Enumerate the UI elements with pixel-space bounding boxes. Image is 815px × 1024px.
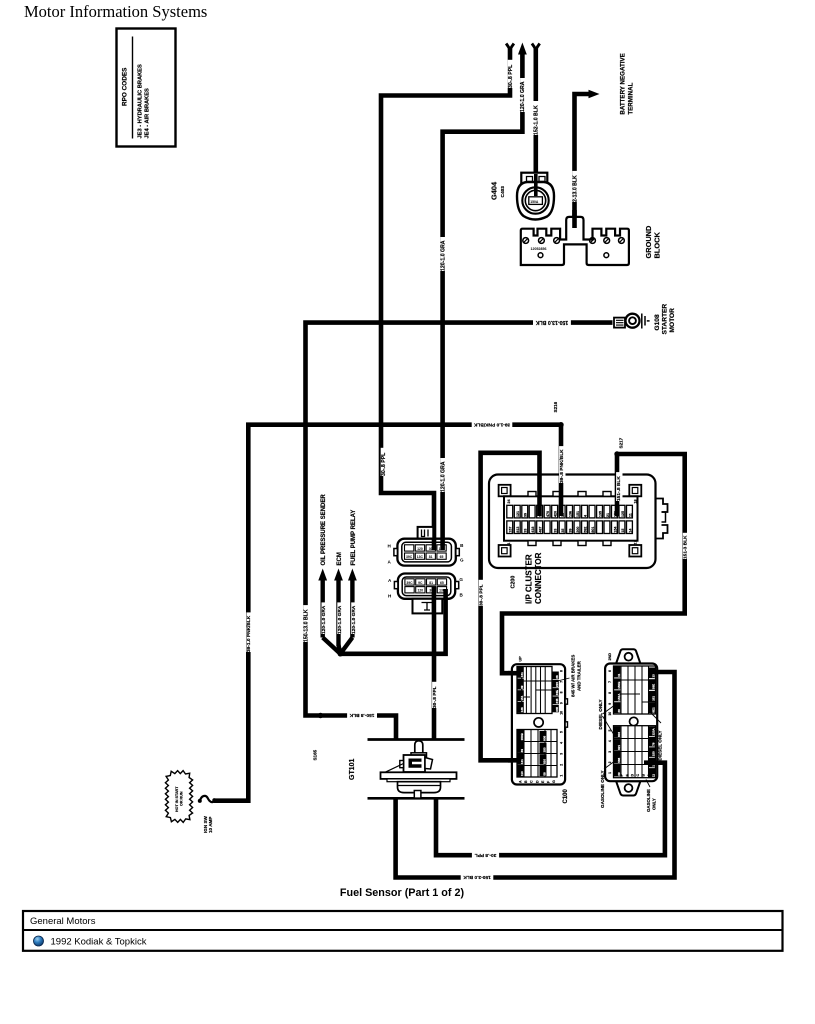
svg-text:65: 65 (440, 555, 444, 559)
label 30-.8 PPL (below ECM) (432, 682, 438, 708)
wire stub into C200 pin 151 BLK (615, 475, 620, 516)
svg-text:BLOCK: BLOCK (653, 232, 662, 259)
svg-text:G: G (460, 558, 464, 563)
svg-text:DIESEL ONLY: DIESEL ONLY (658, 730, 663, 760)
svg-text:S216: S216 (553, 401, 558, 412)
label 39-.8 PNK/BLK (559, 446, 565, 483)
svg-text:FUEL PUMP RELAY: FUEL PUMP RELAY (351, 510, 357, 566)
wire stubs into ECM connector halves (432, 539, 437, 550)
ground stack symbol (641, 314, 643, 329)
wire stubs into C100 cab side (508, 671, 521, 676)
svg-text:120-1.0 GRA: 120-1.0 GRA (440, 461, 446, 492)
svg-text:18: 18 (634, 500, 638, 504)
fuel tank bottom wall (368, 797, 465, 800)
svg-text:BATTERY NEGATIVE: BATTERY NEGATIVE (620, 53, 627, 114)
svg-text:135: 135 (598, 511, 602, 517)
svg-text:A: A (519, 780, 523, 783)
label 120-1.0 GRA (above ECM) (440, 458, 447, 492)
svg-text:33: 33 (554, 529, 558, 533)
svg-text:STARTER: STARTER (662, 304, 669, 335)
svg-text:58: 58 (543, 772, 547, 776)
svg-text:OR RUN: OR RUN (180, 791, 184, 806)
svg-text:152-1.0 BLK: 152-1.0 BLK (534, 105, 540, 135)
svg-text:GASOLINE ONLY: GASOLINE ONLY (600, 770, 605, 808)
svg-text:B: B (524, 780, 528, 783)
svg-text:11: 11 (628, 513, 632, 517)
C200 pin rows (507, 505, 513, 518)
svg-text:1: 1 (507, 543, 511, 545)
arrowhead up 120 GRA (518, 43, 527, 55)
svg-text:C200: C200 (511, 576, 517, 589)
svg-text:150-13.0 BLK: 150-13.0 BLK (303, 609, 309, 642)
svg-text:TERMINAL: TERMINAL (628, 82, 635, 114)
fuse squiggle IGN SW 10 AMP (200, 796, 214, 802)
svg-text:568: 568 (617, 757, 621, 762)
svg-text:39: 39 (524, 513, 528, 517)
svg-text:150: 150 (651, 751, 655, 756)
label 152-1.0 BLK (534, 101, 541, 135)
arrowhead to battery negative terminal (589, 90, 600, 98)
C200 right latch tabs (656, 499, 668, 539)
svg-text:39E: 39E (651, 684, 655, 689)
svg-text:81: 81 (429, 581, 433, 585)
wire stub into G404 (534, 174, 538, 196)
svg-text:150-.8 BLK: 150-.8 BLK (349, 712, 374, 718)
note 845 W/ AIR BRAKES AND TRAILER (558, 678, 570, 681)
svg-text:150B: 150B (617, 681, 621, 689)
svg-text:S165: S165 (312, 749, 317, 760)
wire 150 BLK fuel sender ground to C100 diesel (396, 672, 675, 878)
svg-text:UP: UP (518, 656, 522, 662)
splice S217 dot (614, 451, 619, 456)
svg-text:12052856: 12052856 (531, 247, 547, 251)
svg-text:30-.8 PPL: 30-.8 PPL (432, 686, 438, 708)
wire 30-.8 PPL ECM C2 down to fuel tank (432, 591, 437, 740)
svg-text:151: 151 (576, 511, 580, 517)
svg-text:151A: 151A (617, 693, 621, 701)
label 151-.8 BLK (616, 472, 622, 501)
svg-text:4: 4 (608, 740, 612, 742)
wire 2-13.0 BLK ground block to battery negative (575, 94, 591, 218)
svg-text:17: 17 (634, 541, 638, 545)
diagonal feeds into splice (323, 638, 341, 654)
label 39-1.0 PNK/BLK (horizontal, inverted) (472, 422, 513, 428)
svg-text:14: 14 (628, 529, 632, 533)
C200 body notches (528, 492, 536, 497)
splice S165 dot (318, 713, 323, 718)
off-page fork connector 152 BLK (532, 44, 540, 51)
wire 150-13.0 BLK starter motor run (306, 323, 613, 740)
svg-text:39: 39 (520, 685, 524, 689)
label 150-13.0 BLK (vertical) (303, 605, 310, 642)
svg-text:21: 21 (606, 513, 610, 517)
svg-text:151-.8 BLK: 151-.8 BLK (616, 476, 622, 501)
svg-text:157: 157 (509, 527, 513, 533)
svg-text:138: 138 (520, 707, 524, 712)
svg-text:DIESEL ONLY: DIESEL ONLY (598, 699, 603, 729)
svg-text:806: 806 (617, 732, 621, 737)
svg-text:345: 345 (555, 707, 559, 712)
wire 151 BLK ground distribution from S217 (615, 454, 620, 506)
svg-text:125: 125 (621, 511, 625, 517)
footer table (23, 911, 783, 951)
svg-text:11: 11 (651, 774, 655, 778)
svg-text:150-3.0 BLK: 150-3.0 BLK (463, 874, 491, 880)
svg-text:30-.8 PPL: 30-.8 PPL (475, 852, 497, 858)
HOT IN START OR RUN burst (165, 771, 192, 823)
svg-text:845 W/ AIR BRAKES: 845 W/ AIR BRAKES (571, 655, 576, 697)
C200 corner tabs (499, 485, 511, 497)
svg-text:OIL PRESSURE SENDER: OIL PRESSURE SENDER (321, 494, 327, 566)
svg-text:39-1.0 PNK/BLK: 39-1.0 PNK/BLK (246, 615, 252, 652)
wire stubs into C100 engine side (649, 670, 658, 675)
svg-text:150: 150 (543, 747, 547, 752)
svg-text:D: D (535, 780, 539, 783)
svg-text:10 AMP: 10 AMP (208, 817, 213, 833)
svg-text:151: 151 (520, 695, 524, 700)
svg-text:921: 921 (617, 745, 621, 750)
svg-text:154: 154 (613, 527, 617, 533)
connector C100 engine side with ears (605, 649, 657, 795)
label 2-13.0 BLK (572, 171, 579, 202)
svg-text:B: B (642, 774, 646, 777)
wire 120-1.0 GRA ECM C2 to splice of senders (340, 591, 445, 654)
wire 30-.8 PPL from fuse output / off-page, down-left-down to ECM connector C1 (381, 49, 510, 548)
svg-text:592: 592 (583, 527, 587, 533)
svg-text:9: 9 (608, 703, 612, 705)
svg-text:9C: 9C (418, 581, 423, 585)
label 150-13.0 BLK (horizontal, inverted) (533, 319, 571, 325)
svg-text:9: 9 (560, 702, 564, 704)
svg-text:806: 806 (543, 735, 547, 740)
svg-text:JE3 - HYDRAULIC BRAKES: JE3 - HYDRAULIC BRAKES (138, 64, 144, 138)
svg-text:1: 1 (608, 772, 612, 774)
svg-text:30-.8 PPL: 30-.8 PPL (478, 584, 484, 606)
svg-text:120-1.0 GRA: 120-1.0 GRA (351, 605, 357, 634)
svg-text:220: 220 (555, 682, 559, 687)
wire stub into C200 pin 30 PPL (537, 475, 542, 516)
labels 120-1.0 GRA x3 (322, 602, 328, 634)
svg-text:24: 24 (507, 500, 511, 504)
svg-text:30-.8 PPL: 30-.8 PPL (381, 452, 387, 476)
svg-text:HOT IN START: HOT IN START (175, 786, 179, 812)
wire 39-.8 PNK/BLK to I/P cluster (559, 425, 564, 506)
off-page fork connector (506, 44, 514, 51)
ground block body (521, 217, 629, 265)
svg-text:113: 113 (520, 771, 524, 776)
svg-text:120: 120 (417, 589, 423, 593)
svg-text:G: G (552, 780, 556, 783)
svg-text:1992 Kodiak & Topkick: 1992 Kodiak & Topkick (51, 937, 147, 948)
svg-text:33: 33 (524, 529, 528, 533)
svg-text:C403: C403 (500, 186, 506, 198)
svg-text:11: 11 (617, 673, 621, 677)
svg-text:ONLY: ONLY (651, 798, 656, 810)
svg-text:Motor Information Systems: Motor Information Systems (24, 2, 207, 21)
ground block holes (538, 253, 543, 258)
svg-text:RPO CODES: RPO CODES (122, 67, 129, 106)
svg-text:120A: 120A (651, 727, 655, 735)
svg-text:8: 8 (560, 691, 564, 693)
svg-text:GASOLINE: GASOLINE (646, 789, 651, 812)
svg-text:813: 813 (516, 527, 520, 533)
svg-text:10: 10 (608, 712, 612, 716)
wire 30-.8 PPL I/P cluster to C100 (481, 453, 540, 761)
svg-text:MOTOR: MOTOR (669, 308, 676, 333)
connector C100 (cab side) (512, 664, 568, 784)
wire stub into ground block tab (572, 210, 577, 228)
svg-text:10: 10 (560, 711, 564, 715)
svg-text:418: 418 (531, 527, 535, 533)
svg-text:1: 1 (560, 775, 564, 777)
wire 39-1.0 PNK/BLK ignition feed (214, 425, 562, 801)
label 151-3 BLK (683, 533, 689, 559)
arrows to oil pressure sender / ECM / fuel pump relay (321, 578, 325, 638)
svg-text:39-1.0 PNK/BLK: 39-1.0 PNK/BLK (473, 421, 510, 427)
svg-text:120-1.0 GRA: 120-1.0 GRA (321, 605, 327, 634)
svg-text:120-1.0 GRA: 120-1.0 GRA (337, 605, 343, 634)
svg-text:150-13.0 BLK: 150-13.0 BLK (535, 319, 568, 325)
svg-text:2-13.0 BLK: 2-13.0 BLK (572, 175, 578, 202)
wire 30-.8 PPL fuel sender signal to C100 (436, 763, 665, 856)
svg-text:CONNECTOR: CONNECTOR (534, 552, 543, 604)
svg-text:7: 7 (560, 681, 564, 683)
svg-text:I/P CLUSTER: I/P CLUSTER (525, 554, 534, 604)
svg-text:151-3 BLK: 151-3 BLK (683, 535, 689, 559)
ECM connector lower half (388, 574, 464, 614)
svg-text:C: C (636, 774, 640, 777)
svg-text:39-.8 PNK/BLK: 39-.8 PNK/BLK (559, 449, 565, 483)
svg-text:G: G (615, 774, 619, 777)
svg-text:G404: G404 (489, 181, 498, 200)
svg-text:7: 7 (608, 681, 612, 683)
wire into G404 (534, 188, 537, 196)
label 30-.8 PPL (top) (508, 60, 515, 88)
svg-text:C: C (530, 780, 534, 783)
label 120-1.0 GRA (left run) (440, 237, 447, 271)
svg-text:ECM: ECM (337, 552, 343, 565)
svg-text:A: A (647, 774, 651, 777)
svg-text:15: 15 (621, 529, 625, 533)
label 30-.8 PPL (left of C100) (479, 580, 485, 606)
svg-text:65: 65 (440, 581, 444, 585)
svg-text:34E: 34E (555, 690, 559, 695)
svg-text:D: D (631, 774, 635, 777)
svg-text:IGN SW: IGN SW (203, 815, 208, 833)
svg-text:345: 345 (555, 698, 559, 703)
svg-text:121: 121 (516, 511, 520, 517)
svg-text:3: 3 (560, 753, 564, 755)
label 39-1.0 PNK/BLK (vertical) (246, 612, 252, 652)
svg-text:79: 79 (651, 742, 655, 746)
C200 inner body (504, 496, 638, 540)
svg-text:39C: 39C (406, 581, 413, 585)
svg-text:6: 6 (608, 670, 612, 672)
ECM connector upper half (388, 527, 465, 566)
svg-text:6: 6 (560, 670, 564, 672)
connector G404/C403 ring (517, 173, 554, 220)
fuel gauge sender GT101 (381, 741, 457, 798)
svg-text:801: 801 (591, 527, 595, 533)
svg-text:120: 120 (417, 547, 423, 551)
svg-text:470: 470 (546, 511, 550, 517)
svg-text:120-1.0 GRA: 120-1.0 GRA (440, 240, 446, 271)
label 150-.8 BLK (horizontal, inverted) (347, 713, 377, 719)
splice dot of sender feeds (338, 651, 343, 656)
svg-text:38: 38 (555, 675, 559, 679)
I/P cluster connector C200 shell (489, 475, 656, 569)
svg-text:30-.8 PPL: 30-.8 PPL (508, 64, 514, 88)
wire stub into C200 pin 39 PNK/BLK (559, 475, 564, 516)
label 120-1.0 GRA (top) (520, 78, 527, 112)
svg-text:120-1.0 GRA: 120-1.0 GRA (520, 81, 526, 112)
svg-text:920: 920 (543, 759, 547, 764)
svg-text:S217: S217 (619, 437, 624, 448)
svg-text:G: G (459, 577, 463, 582)
eyelet terminal G108 (614, 318, 625, 328)
wire 152-1.0 BLK down to G404 (533, 49, 538, 196)
splice S216 dot (558, 422, 563, 427)
svg-text:151: 151 (651, 696, 655, 701)
svg-text:2: 2 (560, 764, 564, 766)
label 30-.8 PPL (mid left) (381, 448, 388, 476)
svg-text:81: 81 (429, 555, 433, 559)
svg-text:136: 136 (568, 511, 572, 517)
svg-text:39: 39 (617, 709, 621, 713)
wire 120-1.0 GRA with arrow to instruments (443, 52, 523, 548)
svg-text:150B: 150B (520, 732, 524, 740)
svg-text:4: 4 (560, 742, 564, 744)
svg-text:C100: C100 (563, 788, 569, 803)
ground block screws (523, 238, 529, 244)
svg-text:150A: 150A (530, 200, 539, 204)
svg-text:39C: 39C (406, 555, 413, 559)
svg-text:4: 4 (583, 515, 587, 517)
svg-text:8: 8 (608, 692, 612, 694)
svg-text:Fuel Sensor (Part 1 of 2): Fuel Sensor (Part 1 of 2) (340, 887, 465, 899)
svg-text:13C: 13C (417, 555, 424, 559)
svg-text:JE4 - AIR BRAKES: JE4 - AIR BRAKES (145, 88, 151, 139)
svg-text:420: 420 (554, 511, 558, 517)
svg-text:3: 3 (608, 751, 612, 753)
svg-text:39: 39 (520, 749, 524, 753)
svg-text:G108: G108 (654, 314, 661, 330)
fuel tank top wall (368, 738, 465, 741)
svg-text:487: 487 (539, 527, 543, 533)
svg-text:5: 5 (560, 731, 564, 733)
svg-text:GT101: GT101 (349, 758, 356, 780)
label 30-.8 PPL (bottom, inverted) (472, 852, 499, 858)
svg-text:35: 35 (561, 529, 565, 533)
svg-text:General Motors: General Motors (30, 916, 96, 927)
svg-text:2ND: 2ND (608, 653, 612, 661)
label 150-3.0 BLK (inverted) (461, 875, 494, 881)
svg-text:AND TRAILER: AND TRAILER (577, 660, 582, 691)
svg-text:8E1: 8E1 (651, 707, 655, 713)
svg-text:200: 200 (576, 527, 580, 533)
svg-text:39: 39 (568, 529, 572, 533)
RPO codes note box (117, 29, 176, 147)
